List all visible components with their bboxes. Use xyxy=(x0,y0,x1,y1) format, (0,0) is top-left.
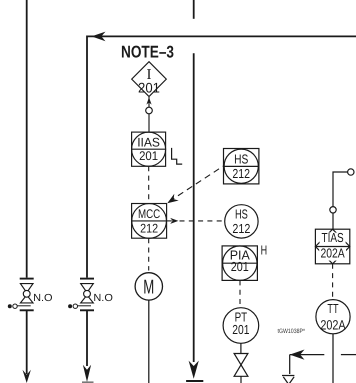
svg-text:HS: HS xyxy=(234,152,248,167)
svg-text:N.O: N.O xyxy=(93,293,113,304)
svg-text:NOTE–3: NOTE–3 xyxy=(121,43,174,62)
svg-text:202A: 202A xyxy=(320,317,345,332)
svg-text:TT: TT xyxy=(327,301,338,316)
svg-text:202A: 202A xyxy=(320,246,345,261)
svg-text:H: H xyxy=(261,243,268,258)
svg-text:TIAS: TIAS xyxy=(322,230,344,245)
svg-text:tGW1038P*: tGW1038P* xyxy=(278,328,306,335)
svg-text:IIAS: IIAS xyxy=(137,135,160,149)
svg-text:N.O: N.O xyxy=(33,293,53,304)
svg-text:HS: HS xyxy=(235,207,248,222)
svg-text:M: M xyxy=(143,277,154,299)
svg-text:201: 201 xyxy=(232,322,249,337)
svg-text:201: 201 xyxy=(231,259,249,274)
svg-text:212: 212 xyxy=(140,222,158,236)
svg-text:212: 212 xyxy=(232,221,250,236)
svg-text:201: 201 xyxy=(139,149,158,163)
svg-text:212: 212 xyxy=(232,166,250,181)
svg-text:MCC: MCC xyxy=(138,207,160,221)
svg-text:201: 201 xyxy=(138,79,160,95)
